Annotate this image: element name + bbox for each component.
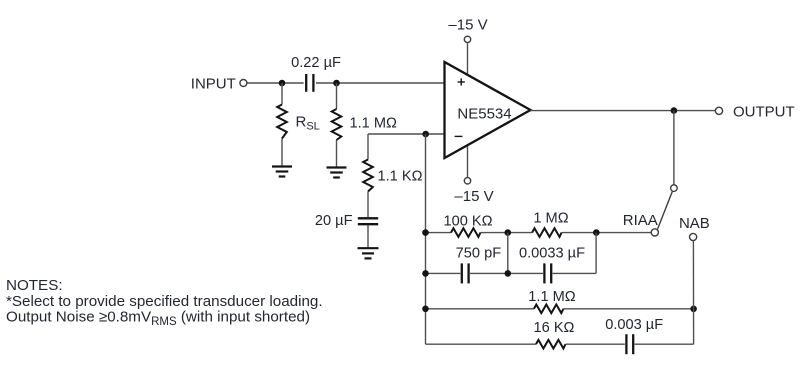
wire output	[531, 110, 716, 112]
svg-text:0.0033 µF: 0.0033 µF	[519, 245, 585, 261]
node row1 left	[422, 229, 429, 236]
capacitor C1 0.22uF	[305, 74, 307, 92]
op-amp minus sign	[455, 135, 463, 137]
wire C2 bottom lead	[367, 225, 369, 247]
wire row2 right	[553, 272, 597, 274]
power terminal top	[464, 36, 470, 42]
wire row1 mid	[481, 232, 533, 234]
svg-text:NE5534: NE5534	[457, 105, 511, 122]
node cap-right junction	[333, 80, 340, 87]
ground C2	[358, 248, 379, 258]
wire left feedback vertical	[425, 134, 427, 344]
wire row2 mid	[470, 272, 543, 274]
wire RSL bottom lead	[281, 139, 283, 167]
wire R2 bottom lead	[336, 140, 338, 168]
svg-text:Output Noise ≥0.8mVRMS (with i: Output Noise ≥0.8mVRMS (with input short…	[6, 309, 310, 328]
node row2 mid	[505, 270, 512, 277]
svg-text:1.1 MΩ: 1.1 MΩ	[528, 289, 575, 305]
resistor RSL	[277, 105, 287, 139]
node row3 right	[690, 306, 697, 313]
wire row3 right	[563, 308, 693, 310]
node row1 right	[593, 229, 600, 236]
wire row4 mid	[566, 343, 625, 345]
resistor 100 Kohm	[451, 228, 481, 237]
wire row3 left	[426, 308, 534, 310]
svg-text:RIAA: RIAA	[623, 212, 658, 229]
svg-text:1.1 MΩ: 1.1 MΩ	[350, 116, 397, 132]
wire NAB vertical	[692, 241, 694, 344]
svg-text:0.003 µF: 0.003 µF	[605, 317, 663, 333]
node row2 left	[422, 270, 429, 277]
node input junction	[279, 80, 286, 87]
resistor R2 1.1 Mohm	[332, 109, 342, 140]
svg-text:0.22 µF: 0.22 µF	[291, 55, 341, 71]
switch contact NAB	[690, 233, 697, 240]
capacitor 750 pF	[461, 263, 463, 283]
wire input to C1	[247, 82, 303, 84]
wire bottom supply	[467, 145, 469, 178]
node output junction	[671, 107, 678, 114]
power terminal bottom	[464, 178, 470, 184]
svg-text:–15 V: –15 V	[448, 16, 487, 33]
switch arm	[658, 191, 673, 229]
svg-text:OUTPUT: OUTPUT	[733, 104, 795, 121]
svg-text:–15 V: –15 V	[454, 188, 493, 205]
wire C1 to op-amp +	[316, 82, 445, 84]
wire row1-row2 connector mid	[507, 233, 509, 274]
op-amp U1 NE5534	[445, 62, 531, 158]
wire top supply	[467, 43, 469, 75]
capacitor 0.0033 uF	[543, 263, 545, 283]
node row1 mid	[505, 229, 512, 236]
capacitor 0.003 uF	[625, 334, 627, 354]
input terminal	[240, 80, 247, 87]
node row3 left	[422, 306, 429, 313]
svg-text:100 KΩ: 100 KΩ	[443, 214, 492, 230]
wire row2 left	[426, 272, 461, 274]
ground R2	[327, 168, 347, 178]
svg-text:20 µF: 20 µF	[315, 213, 353, 229]
svg-text:NOTES:: NOTES:	[6, 277, 63, 294]
resistor 16 Kohm	[536, 340, 566, 349]
switch pole terminal	[671, 185, 678, 192]
wire row1 left	[426, 232, 452, 234]
wire row4 right	[635, 343, 694, 345]
resistor 1 Mohm	[532, 228, 562, 237]
wire R2 top lead	[336, 83, 338, 109]
wire output to switch pole	[673, 111, 675, 185]
svg-text:16 KΩ: 16 KΩ	[534, 320, 575, 336]
ground RSL	[272, 167, 292, 177]
svg-text:1.1 KΩ: 1.1 KΩ	[378, 169, 423, 185]
resistor 1.1 Mohm row3	[534, 305, 564, 314]
node inverting input	[422, 131, 429, 138]
wire inverting node horizontal	[368, 133, 426, 135]
output terminal	[715, 107, 722, 114]
svg-text:1 MΩ: 1 MΩ	[533, 211, 568, 227]
wire row1 right to RIAA contact	[562, 232, 651, 234]
wire row4 left	[426, 343, 537, 345]
svg-text:INPUT: INPUT	[191, 75, 236, 92]
svg-text:*Select to provide specified t: *Select to provide specified transducer …	[6, 293, 323, 310]
wire inverting node to op-amp minus input	[426, 133, 445, 135]
svg-text:750 pF: 750 pF	[456, 245, 502, 261]
wire row2-row1 connector right	[595, 233, 597, 274]
capacitor C2 20uF	[358, 217, 378, 219]
svg-text:NAB: NAB	[679, 215, 710, 232]
resistor R3 1.1 Kohm	[363, 160, 373, 192]
op-amp plus sign	[458, 78, 465, 85]
wire R3 top lead	[367, 134, 369, 160]
svg-text:RSL: RSL	[296, 114, 320, 133]
wire R3 to C2	[367, 192, 369, 218]
switch contact RIAA	[651, 229, 658, 236]
wire RSL top lead	[281, 83, 283, 105]
